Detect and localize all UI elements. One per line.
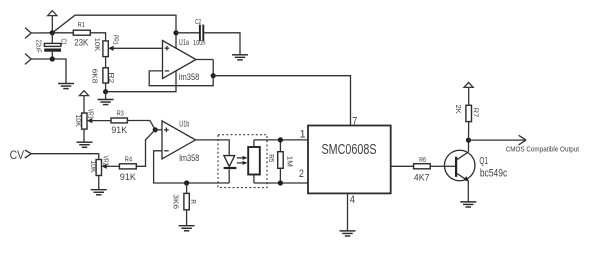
svg-text:C1: C1 [60,39,69,46]
wire V- of U1a [106,71,176,92]
wire output U1b to LED [196,140,230,156]
svg-text:R5: R5 [267,154,276,162]
wire to ground [52,59,66,84]
transistor Q1 [444,140,475,202]
node dot + input U1b [153,127,158,132]
wire pin2 rail [254,182,308,184]
wire to pin 7 [213,76,350,126]
trimmer VR2 [96,160,119,176]
power VCC top-left [48,11,57,33]
ground [232,55,248,60]
LDR photoresistor [248,140,260,183]
svg-text:R2: R2 [107,73,116,84]
svg-text:U1a: U1a [179,37,189,47]
ground [340,231,356,236]
svg-text:23K: 23K [74,37,89,48]
svg-text:VR2: VR2 [101,156,110,166]
resistor R4 [119,130,155,169]
svg-text:10K: 10K [74,114,83,127]
wire + input U1b [155,129,162,131]
svg-text:R6: R6 [419,155,426,164]
svg-text:Q1: Q1 [479,156,488,167]
node dot [103,89,108,94]
capacitor C2 [176,25,240,55]
svg-text:R4: R4 [125,154,133,163]
trimmer VR1 [82,113,111,129]
svg-text:4: 4 [350,194,355,206]
svg-text:SMC0608S: SMC0608S [322,142,377,158]
power VCC mid [79,91,88,113]
wire diagonal to top rail [52,15,176,48]
svg-text:R3: R3 [117,108,124,117]
resistor R5 [278,140,284,183]
node dot [50,56,55,61]
node V+ dot [173,30,178,35]
svg-text:PR1: PR1 [111,35,120,45]
node input dot [50,30,55,35]
svg-text:1: 1 [300,129,306,141]
svg-text:2: 2 [299,168,304,180]
wire feedback U1a [149,60,213,86]
power VCC right [464,83,473,88]
svg-text:1M: 1M [286,156,295,167]
ground [91,190,107,195]
svg-text:3K6: 3K6 [172,194,181,209]
input connector J1 [25,28,31,39]
ground [98,100,114,105]
trimmer PR1 [103,41,163,57]
svg-text:10K: 10K [93,38,102,52]
wire output U1a [196,59,213,61]
input connector CV [25,150,32,158]
ground [77,142,93,147]
svg-text:lm358: lm358 [179,72,199,82]
node dot collector [466,138,471,143]
svg-text:bc549c: bc549c [480,167,508,179]
svg-text:R1: R1 [78,20,86,29]
svg-text:4K7: 4K7 [414,172,430,183]
node dot output [211,73,216,78]
svg-text:7: 7 [352,116,357,128]
wire [31,32,52,34]
svg-text:R7: R7 [471,108,480,117]
wire output arrow [469,135,527,145]
wire to ground [83,129,85,142]
wire to ground [98,176,100,190]
wire CV [31,154,98,160]
svg-text:100n: 100n [193,40,206,47]
svg-text:lm358: lm358 [179,153,199,163]
resistor R1 [52,30,105,41]
IC SMC0608S [308,126,391,194]
wire pin 4 [347,193,349,231]
wire to ground [105,92,107,100]
capacitor C1 [44,33,61,59]
svg-text:91K: 91K [120,172,137,183]
ground [58,84,74,89]
ground [460,202,476,207]
wire [31,58,52,60]
wire feedback U1b [154,151,230,183]
wire pin1 rail [254,139,308,141]
resistor R3 [111,118,155,130]
svg-text:VR1: VR1 [87,109,96,119]
svg-text:CMOS Compatible Output: CMOS Compatible Output [506,147,579,154]
svg-text:6K8: 6K8 [90,69,99,84]
node dot [184,180,189,185]
svg-text:CV: CV [10,150,25,162]
op-amp U1a [163,41,197,79]
resistor R6 [414,164,445,169]
input connector J2 [25,54,31,65]
dashed vactrol box [218,135,267,188]
resistor R7 [466,87,472,140]
LED diode [224,156,237,183]
svg-text:R: R [189,199,198,204]
svg-text:2K: 2K [454,105,463,115]
svg-text:91K: 91K [111,125,127,136]
svg-text:10K: 10K [89,160,98,173]
op-amp U1b [162,121,196,159]
svg-text:C2: C2 [195,19,201,26]
resistor R2 [103,57,108,92]
LED arrows [237,156,248,165]
svg-text:U1b: U1b [179,119,189,129]
wire IC out [391,165,414,167]
svg-text:22uF: 22uF [35,40,44,53]
node dots R5 [278,137,283,142]
ground [179,226,195,231]
resistor R 3K6 [184,183,189,226]
